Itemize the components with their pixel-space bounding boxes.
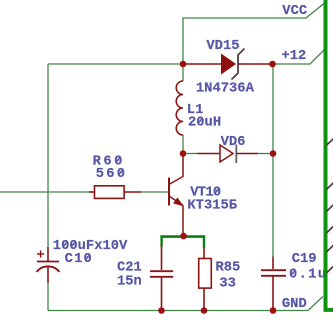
slashed zero in 560 [119, 170, 122, 175]
wire C21 top lead [161, 245, 163, 270]
svg-text:R85: R85 [216, 261, 241, 276]
VT10 emitter arrow [174, 198, 183, 206]
bus vertical right [326, 0, 333, 310]
C19 top plate [261, 269, 286, 271]
wire emitter to junction [182, 234, 184, 236]
svg-text:20uH: 20uH [188, 115, 221, 130]
wire VT10 emitter lead down [182, 206, 184, 234]
wire C21 top net stub [160, 236, 162, 247]
junction node C19 gnd [270, 307, 277, 314]
svg-text:0.1u: 0.1u [289, 268, 327, 283]
svg-text:GND: GND [282, 297, 307, 312]
svg-text:VD15: VD15 [206, 39, 239, 54]
svg-text:C21: C21 [117, 260, 142, 275]
wire VT10 collector [170, 154, 183, 184]
VD15 zener cathode bar [232, 49, 245, 80]
svg-text:33: 33 [219, 277, 236, 292]
slashed zeros in 100uFx10V [64, 242, 67, 247]
wire L1 bottom lead [182, 135, 184, 154]
wire emitter junction row [160, 235, 205, 238]
wire C19 bottom lead [272, 277, 274, 311]
capacitor C21 [117, 236, 173, 311]
wire C19 top lead [272, 257, 274, 270]
junction node L1 top [180, 61, 187, 68]
wire R85 top net stub [203, 236, 205, 249]
junction node emitter [180, 233, 187, 240]
slashed zero in VT10 [216, 188, 219, 193]
C10 positive plate [37, 261, 59, 263]
resistor R60 [0, 155, 168, 199]
C19 bottom plate [261, 275, 286, 277]
junction node collector [180, 150, 187, 157]
wire L1 top lead [182, 64, 184, 81]
VT10 base bar [168, 178, 170, 206]
svg-text:C19: C19 [292, 252, 317, 267]
C21 bottom plate [150, 276, 173, 278]
wire VD6 anode net segment [183, 153, 197, 155]
diode VD15 (zener) [183, 39, 273, 96]
svg-text:КТ315Б: КТ315Б [187, 198, 237, 213]
wire +12 row right segment to bus [273, 50, 325, 64]
wire +12 row left segment [48, 63, 183, 65]
VD6 cathode bar [235, 145, 237, 164]
slashed zero in R60 [117, 157, 120, 162]
junction node VD15 cathode [269, 61, 276, 68]
bus entry tick 4 [327, 226, 333, 233]
capacitor C10 (polarized electrolytic) [37, 239, 129, 283]
bus entry tick 2 [327, 182, 333, 189]
slashed zero in 20uH [199, 118, 202, 123]
svg-text:+12: +12 [282, 49, 307, 64]
R60 body [95, 186, 125, 199]
wire VCC top horizontal [183, 4, 324, 65]
R85 body [199, 259, 212, 289]
wire R60 to VT10 base [141, 191, 168, 193]
wire VD15 anode lead [183, 63, 221, 65]
wire left vertical [47, 64, 49, 247]
wire GND row [48, 297, 323, 311]
wire VD6 anode lead [197, 153, 220, 155]
wire right vertical [272, 64, 274, 257]
junction node VD6 cathode [270, 150, 277, 157]
wire R85 top lead [203, 248, 205, 259]
bus entry tick 5 [327, 245, 333, 252]
wire left vertical below C10 [47, 283, 49, 311]
wire R85 bottom lead [203, 288, 205, 310]
svg-text:560: 560 [96, 167, 127, 182]
slashed zero in 0.1u [292, 270, 295, 275]
svg-text:15n: 15n [117, 274, 142, 289]
svg-text:C10: C10 [65, 252, 93, 267]
bus entry tick 3 [327, 204, 333, 211]
wire R60 right lead [124, 191, 141, 193]
svg-text:VCC: VCC [282, 4, 307, 19]
L1 coil arcs [176, 81, 183, 135]
wire base net from left edge [0, 191, 89, 193]
C10 curved negative plate [37, 266, 60, 272]
wire R60 left lead [89, 191, 95, 193]
wire C10 bottom lead [47, 267, 49, 283]
wire VD6 cathode lead [236, 153, 258, 155]
wire VD15 cathode lead [238, 63, 273, 65]
C21 top plate [150, 270, 173, 272]
inductor L1 [176, 64, 221, 154]
resistor R85 [199, 236, 241, 311]
wire VT10 emitter [170, 196, 184, 205]
wire VD6 cathode net segment [258, 153, 273, 155]
transistor VT10 (NPN) [169, 154, 237, 236]
svg-text:1N4736A: 1N4736A [196, 81, 255, 96]
svg-text:VD6: VD6 [221, 135, 246, 150]
VD15 anode triangle [221, 54, 236, 75]
junction node R85 gnd [201, 307, 208, 314]
capacitor C19 [261, 252, 327, 310]
wire C10 top lead [47, 247, 49, 261]
bus entry tick 6 [327, 266, 333, 273]
wire C21 bottom lead [161, 278, 163, 311]
VD6 anode triangle [220, 145, 233, 162]
diode VD6 [183, 135, 273, 163]
junction node C21 gnd [158, 307, 165, 314]
bus entry tick 1 [327, 138, 333, 145]
slashed zero in C10 [86, 255, 89, 260]
C10 plus sign [37, 253, 44, 255]
